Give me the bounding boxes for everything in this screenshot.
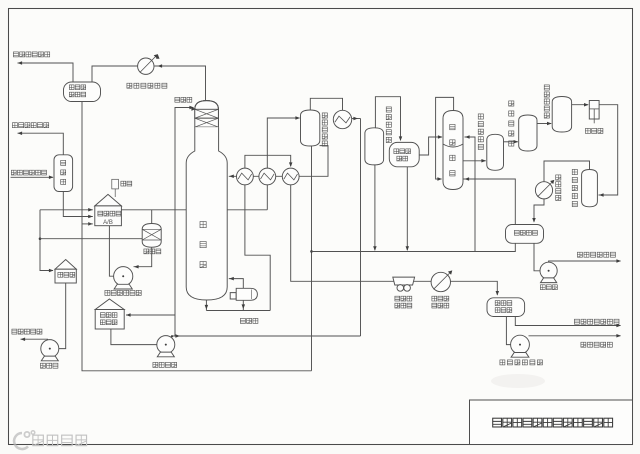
svg-text:A/B: A/B — [103, 220, 113, 226]
